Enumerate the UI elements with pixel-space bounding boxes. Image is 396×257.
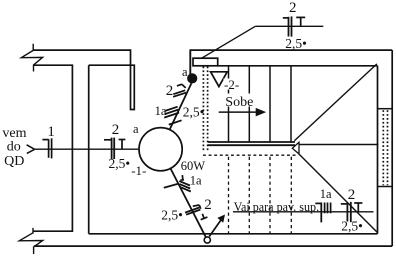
svg-text:Vai para pav. sup.: Vai para pav. sup. [234,200,320,214]
svg-text:Sobe: Sobe [225,95,253,110]
svg-text:QD: QD [4,154,24,169]
svg-text:-1-: -1- [131,163,146,178]
svg-text:1a: 1a [320,187,332,201]
svg-text:1a: 1a [190,174,202,188]
svg-text:60W: 60W [181,159,206,173]
svg-text:1: 1 [47,124,55,140]
svg-text:a: a [133,122,139,136]
svg-text:1a: 1a [155,104,167,118]
svg-text:2,5•: 2,5• [285,36,307,51]
svg-text:2: 2 [166,83,174,99]
svg-text:2,5•: 2,5• [161,207,183,222]
svg-text:2: 2 [289,0,297,16]
svg-text:2,5•: 2,5• [109,156,131,171]
svg-text:2: 2 [112,122,120,138]
svg-text:2: 2 [204,197,212,213]
svg-text:do: do [7,140,21,155]
svg-text:-2-: -2- [224,77,239,92]
svg-text:a: a [182,65,188,79]
svg-text:2,5•: 2,5• [183,105,205,120]
svg-text:2,5•: 2,5• [341,218,363,233]
svg-text:2: 2 [348,187,356,203]
